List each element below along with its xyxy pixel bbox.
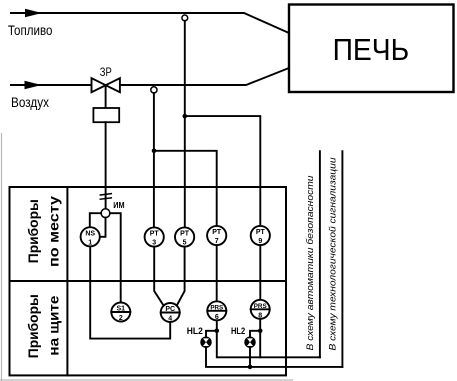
svg-text:ПЕЧЬ: ПЕЧЬ [333,32,410,67]
svg-text:NS: NS [85,230,95,237]
svg-text:PT: PT [212,229,222,236]
svg-text:PRS: PRS [254,303,267,310]
svg-text:5: 5 [183,240,187,247]
svg-text:S1: S1 [117,306,126,313]
svg-text:по месту: по месту [46,196,62,267]
svg-text:Приборы: Приборы [25,294,41,358]
svg-text:ЗР: ЗР [100,67,112,79]
svg-text:ИМ: ИМ [113,201,125,210]
svg-text:HL2: HL2 [187,326,203,336]
svg-text:3: 3 [152,240,156,247]
svg-text:7: 7 [215,238,219,245]
svg-text:PT: PT [180,231,190,238]
svg-text:В схему автоматики безопасност: В схему автоматики безопасности [305,175,316,351]
svg-text:6: 6 [215,314,219,321]
svg-text:PT: PT [150,231,160,238]
svg-text:Приборы: Приборы [25,199,41,263]
svg-text:1: 1 [88,239,92,246]
svg-text:Топливо: Топливо [8,23,53,38]
svg-text:2: 2 [119,315,123,322]
svg-text:9: 9 [258,238,262,245]
svg-text:8: 8 [258,312,262,319]
svg-text:В схему технологической сигнал: В схему технологической сигнализации [327,157,338,351]
svg-text:HL2: HL2 [231,326,245,336]
svg-text:4: 4 [168,316,172,323]
svg-text:PT: PT [256,229,266,236]
svg-text:PC: PC [165,306,175,313]
svg-text:Воздух: Воздух [11,95,49,110]
svg-text:PRS: PRS [210,304,223,311]
svg-text:на щите: на щите [46,295,62,355]
